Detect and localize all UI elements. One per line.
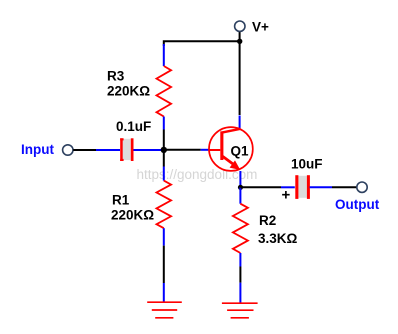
wire V+ lead: [239, 32, 241, 42]
svg-text:0.1uF: 0.1uF: [116, 119, 151, 134]
svg-text:Output: Output: [335, 197, 380, 212]
wire base: [164, 149, 210, 151]
wire emitter lead: [239, 171, 241, 187]
svg-text:Input: Input: [21, 142, 54, 157]
svg-text:+: +: [282, 187, 291, 204]
svg-text:R2: R2: [259, 213, 276, 228]
terminal Input: [63, 145, 73, 155]
wire input: [73, 149, 96, 151]
svg-text:220KΩ: 220KΩ: [107, 84, 150, 99]
svg-text:V+: V+: [252, 20, 269, 35]
resistor R3: [157, 44, 172, 130]
terminal V+: [235, 21, 245, 31]
svg-text:3.3KΩ: 3.3KΩ: [258, 231, 298, 246]
svg-text:R1: R1: [112, 193, 130, 208]
resistor R2: [233, 187, 248, 266]
capacitor C1: [96, 138, 163, 161]
svg-text:R3: R3: [107, 69, 125, 84]
ground GND1: [147, 302, 182, 318]
terminal Output: [357, 182, 367, 192]
svg-text:220KΩ: 220KΩ: [111, 208, 154, 223]
wire R3 to base node: [163, 130, 165, 150]
node top junction: [237, 39, 242, 44]
node base junction: [161, 147, 167, 153]
node emitter junction: [238, 185, 243, 190]
wire collector lead: [239, 41, 241, 129]
svg-text:Q1: Q1: [231, 144, 250, 159]
svg-text:10uF: 10uF: [291, 157, 323, 172]
resistor R1: [157, 150, 172, 246]
capacitor C2: [295, 175, 310, 199]
wire top rail: [164, 41, 240, 46]
wire R1 to ground: [163, 246, 165, 302]
transistor Q1: [209, 127, 253, 171]
ground GND2: [222, 303, 258, 318]
wire output: [310, 186, 358, 188]
wire R2 to ground: [239, 267, 241, 304]
wire output node: [240, 186, 294, 188]
